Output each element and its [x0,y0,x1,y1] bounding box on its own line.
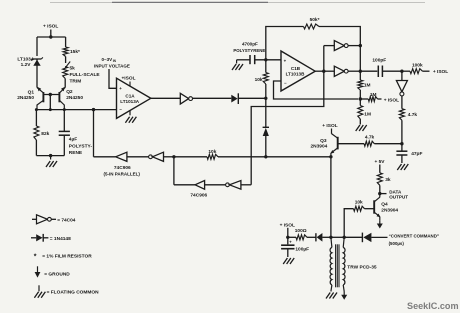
resistor 10k row1 [207,154,218,159]
svg-text:(5-IN PARALLEL): (5-IN PARALLEL) [103,172,140,177]
resistor 82k [35,110,37,126]
wire node K to convert diode [344,236,362,238]
svg-text:+ ISOL: + ISOL [43,24,58,30]
wire summing row to C1A inverting input [36,109,116,111]
svg-text:10k: 10k [355,200,363,206]
svg-text:= FLOATING COMMON: = FLOATING COMMON [47,289,100,295]
svg-text:= 1N4148: = 1N4148 [50,236,71,242]
svg-text:POLYSTYRENE: POLYSTYRENE [233,48,265,53]
svg-text:+ISOL: +ISOL [122,76,136,82]
resistor 15k* [65,37,67,47]
wire node F to 10k [174,156,207,158]
transistor Q3 2N3904 [331,129,333,134]
capacitor 47pF [401,144,403,151]
svg-text:Q4: Q4 [381,201,388,207]
node J transformer left junction [329,236,332,239]
svg-text:C1B: C1B [291,66,301,71]
capacitor 100uF electrolytic [287,237,289,244]
wire 15k to trimpot [65,57,67,64]
wire 4700pF to C1B noninverting input [255,59,281,61]
svg-text:INPUT VOLTAGE: INPUT VOLTAGE [94,64,130,69]
wire C1B output to node B [315,70,324,72]
wire buffer row2 to inverter [205,184,226,186]
diode 1N4148 supply (points left) [315,233,317,241]
transistor Q4 2N3904 [379,194,381,198]
ground below Q4 emitter [379,217,381,221]
svg-text:4µF: 4µF [69,137,77,143]
resistor 10k vertical [263,73,268,85]
node E timing junction [400,142,403,145]
inverter gate 74C04 lower [334,66,344,76]
diode 1N4148 convert command (points left) [361,233,363,243]
svg-text:0–3V: 0–3V [102,57,114,62]
wire buffer to inverter row1 [127,156,149,158]
wire left vertical from top rail to zener [36,37,38,56]
wire row2 to buffer [174,184,195,186]
node F row junction [172,155,175,158]
node B C1B output junction [322,70,325,73]
node C bias junction [359,97,362,100]
node stub +ISOL top left [50,30,52,38]
resistor 4.7k vertical [399,109,404,121]
svg-text:= GROUND: = GROUND [44,271,70,277]
wire Q3 base to 4.7k [338,143,364,145]
op-amp U1 C1A LT1013A [117,78,151,118]
floating common below 1M lower [356,125,360,131]
wire bottom rail left block [36,155,64,157]
svg-text:2N3904: 2N3904 [310,144,327,150]
svg-text:15k*: 15k* [70,49,80,55]
wire inverter to diode [193,97,232,99]
supply stub above C1A [129,82,131,87]
resistor 1M lower vertical [359,99,361,106]
svg-text:OUTPUT: OUTPUT [389,195,408,200]
svg-text:100Ω: 100Ω [295,228,307,234]
resistor 50k* feedback [304,24,320,29]
wire node B feedback vertical down-left to 74C906 row2 [251,46,324,185]
svg-text:−: − [119,107,122,112]
wire data output stub [380,193,387,195]
transformer T1 secondary winding [343,237,344,247]
zener diode LT1034 1.2V [33,58,42,60]
wire node J to node K [331,236,344,238]
wire inverter row1 to node F [164,156,174,158]
op-amp U2 C1B LT1013B [281,51,315,91]
wire node B rail to 100pF [360,70,377,72]
diode 1N4148 vertical at node A [265,98,267,127]
node G Q3 emitter junction [329,155,332,158]
svg-text:IN: IN [113,59,117,63]
svg-text:+: + [284,59,287,64]
floating common at 4700pF [232,64,236,70]
svg-text:50k*: 50k* [310,17,320,23]
svg-text:100µF: 100µF [295,246,309,252]
svg-text:5k: 5k [70,66,76,72]
svg-text:SeekIC.com: SeekIC.com [407,301,459,311]
svg-text:*: * [34,254,37,261]
svg-text:−: − [284,80,287,85]
svg-text:Q3: Q3 [320,138,327,144]
svg-text:82k: 82k [41,131,49,137]
wire C1A output [151,97,181,99]
transistor Q1 2N4250 PNP [42,92,44,102]
svg-text:LT1034: LT1034 [17,57,34,63]
resistor 100 ohm [288,236,296,238]
svg-text:2N4250: 2N4250 [66,95,83,101]
svg-text:1M: 1M [364,83,371,89]
transistor Q2 2N4250 PNP [58,92,60,102]
wire top rail to 15k branch [37,36,66,38]
svg-text:FULL-SCALE: FULL-SCALE [70,72,101,78]
svg-text:+ ISOL: + ISOL [280,222,295,228]
svg-text:TRW PCD-35: TRW PCD-35 [347,264,377,270]
svg-text:1M: 1M [364,112,371,118]
wire row1 output to buffer [94,156,116,158]
wire down-inverter to 4.7k [401,96,403,109]
wire node B to lower inverter input [324,70,335,72]
ground below secondary [343,292,345,296]
transformer T1 core [335,244,337,287]
svg-text:74C906: 74C906 [114,165,131,171]
floating common below 100uF [283,258,287,264]
svg-text:Q2: Q2 [66,89,73,95]
wire 50k to inverter rail [319,27,360,38]
transformer T1 TRW PCD-35 primary winding [331,237,332,247]
wire 100pF to node D [382,70,402,72]
node K transformer right junction [343,236,346,239]
wire +5V to 3k [379,165,381,173]
svg-text:Q1: Q1 [28,89,35,95]
inverter gate 74C04 upper [324,45,335,47]
wire 10k to Q3 emitter node [218,156,331,158]
resistor 10k Q4 base [354,206,365,211]
svg-text:2N3904: 2N3904 [381,208,398,214]
wire 100ohm to diode [307,236,316,238]
wire inverter rail vertical [359,37,361,80]
svg-text:“CONVERT COMMAND”: “CONVERT COMMAND” [389,234,440,239]
svg-text:+: + [119,86,122,91]
floating common below C1A [129,110,131,115]
wire Q4 base to 10k [365,208,375,210]
inverter gate 74C04 after C1A [180,93,188,104]
svg-text:4.7k: 4.7k [408,112,418,118]
wire 10k down to transformer node [344,209,353,238]
legend floating common symbol [38,285,40,291]
svg-text:+ ISOL: + ISOL [384,98,399,104]
wire node F down to row2 [173,157,175,185]
wire base tie Q1-Q2 [43,94,59,96]
floating common below left rail [50,156,52,160]
resistor 4.7k horizontal [364,141,374,146]
wire node G long vertical to transformer [330,157,332,238]
capacitor 100pF [377,66,379,78]
svg-text:= 1% FILM RESISTOR: = 1% FILM RESISTOR [42,254,92,260]
svg-text:47pF: 47pF [411,151,422,157]
node H data output junction [378,192,381,195]
svg-text:4700pF: 4700pF [242,42,258,47]
svg-text:TRIM: TRIM [70,78,82,84]
legend inverter symbol 74C04 [32,218,37,220]
node A diode-10k junction [264,97,267,100]
wire base tie down to summing row [49,95,51,110]
floating common below 47pF [397,164,401,170]
wire upper inverter output [348,45,360,47]
svg-text:(500µs): (500µs) [389,241,405,246]
svg-text:+ ISOL: + ISOL [433,69,448,75]
wire lower inverter output [348,70,360,72]
inverter gate row2 [229,181,241,190]
wire node A vertical to 4700pF node [265,60,267,73]
wire trimpot to Q2 emitter [64,79,66,88]
node D output junction [400,70,403,73]
svg-text:LT1013A: LT1013A [120,99,139,104]
svg-text:3k: 3k [385,177,391,183]
potentiometer 5k full-scale trim [65,62,70,68]
svg-text:= 74C04: = 74C04 [57,217,76,223]
buffer gate 74C906 row1 (5-in parallel) [116,152,127,161]
svg-text:RENE: RENE [69,150,83,156]
svg-text:1M: 1M [370,92,377,98]
capacitor 4uF polystyrene [63,110,65,132]
inverter gate 74C04 pointing down [401,71,403,80]
svg-text:+: + [289,240,292,245]
resistor 1M upper vertical [358,80,363,90]
resistor 1M horizontal to +ISOL [368,97,377,102]
legend diode symbol 1N4148 [31,237,36,239]
svg-text:+ 5V: + 5V [375,159,386,165]
legend ground symbol [37,266,39,272]
svg-text:10k: 10k [208,149,216,155]
svg-text:+ ISOL: + ISOL [322,123,337,129]
wire 50k feedback left leg [266,27,304,60]
wire diode to node A [238,97,265,99]
diode 1N4148 charge pump [231,95,237,103]
wire C1B inverting input loop [274,81,359,99]
wire input to C1A noninverting input [109,69,117,88]
wire inverter row2 input from feedback [241,184,251,186]
svg-text:2N4250: 2N4250 [17,95,34,101]
resistor 100k to +ISOL [402,70,410,72]
svg-text:100pF: 100pF [372,57,386,63]
wire zener to Q1 emitter [36,66,38,88]
scan artifact faint top line [50,2,425,4]
buffer gate 74C906 row2 [195,181,205,190]
svg-text:1.2V: 1.2V [21,62,32,68]
svg-text:POLYSTY-: POLYSTY- [69,144,93,150]
svg-text:C1A: C1A [125,94,135,99]
capacitor 4700pF polystyrene [249,55,251,64]
wire convert diode to label [371,236,387,238]
svg-text:4.7k: 4.7k [365,135,375,141]
wire 4700pF left to common [237,59,250,61]
wire diode to node J [322,236,331,238]
wire C1A summing node down to row1 [93,110,95,157]
inverter gate row1 [152,152,163,161]
svg-text:10k: 10k [255,77,263,83]
wire +ISOL to node I [287,228,289,238]
svg-text:74C906: 74C906 [190,193,207,199]
node I supply junction [286,236,289,239]
resistor 3k [377,173,382,186]
svg-text:LT1013B: LT1013B [286,71,305,76]
svg-text:100k: 100k [412,63,423,69]
floating common below primary [326,293,330,299]
